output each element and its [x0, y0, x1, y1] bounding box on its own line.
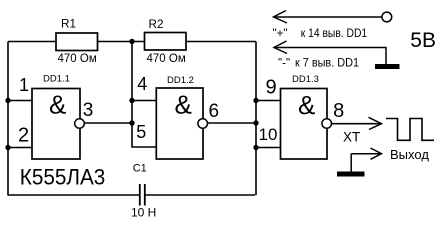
wire left vertical node A — [7, 42, 9, 196]
ground bar (power minus) — [375, 64, 400, 69]
terminal circle +5V — [382, 12, 392, 22]
svg-text:DD1.2: DD1.2 — [167, 75, 194, 86]
inverter bubble DD1.2 output — [198, 119, 208, 129]
wire Выход arrow — [351, 153, 381, 155]
wire DD1.3 output to XT arrow — [332, 123, 382, 125]
svg-text:R2: R2 — [149, 18, 164, 31]
svg-text:К555ЛА3: К555ЛА3 — [20, 164, 106, 189]
junction node C pin9 — [253, 98, 258, 103]
junction node B top — [129, 39, 134, 44]
svg-text:R1: R1 — [61, 18, 76, 31]
capacitor C1 — [140, 184, 145, 206]
wire -5V feed line — [274, 48, 386, 65]
pin 9 wire — [256, 100, 281, 102]
svg-text:к 14 выв. DD1: к 14 выв. DD1 — [301, 27, 367, 40]
arrowhead XT output — [369, 117, 382, 129]
svg-text:9: 9 — [265, 77, 276, 99]
svg-text:10 Н: 10 Н — [131, 206, 156, 220]
svg-text:2: 2 — [18, 125, 29, 147]
pin 10 wire — [256, 147, 281, 149]
op-amp U1: NAND gate DD1.1 box — [32, 89, 80, 160]
svg-text:&: & — [49, 89, 66, 119]
svg-text:1: 1 — [19, 75, 29, 95]
junction node C output — [253, 120, 258, 125]
arrowhead Выход (right) — [371, 148, 382, 159]
wire C1 to node C bottom — [146, 194, 256, 196]
inverter bubble DD1.3 output — [322, 119, 332, 129]
junction node A pin1 — [5, 98, 10, 103]
resistor R2 — [145, 33, 187, 51]
junction node B output — [129, 120, 134, 125]
op-amp U2: NAND gate DD1.2 box — [156, 88, 203, 159]
junction node C pin10 — [253, 145, 258, 150]
svg-text:DD1.1: DD1.1 — [43, 74, 70, 85]
wire ground drop (output) — [350, 154, 352, 172]
pin 2 wire — [8, 147, 32, 149]
svg-text:XT: XT — [343, 130, 360, 145]
svg-text:к 7 выв. DD1: к 7 выв. DD1 — [295, 56, 359, 69]
wire bottom from node A to C1 — [8, 194, 139, 196]
wire R2 to node C vertical — [186, 41, 256, 43]
node C vertical wire — [255, 42, 257, 196]
svg-text:470 Ом: 470 Ом — [147, 53, 186, 65]
svg-text:10: 10 — [259, 125, 278, 144]
op-amp U3: NAND gate DD1.3 box — [281, 89, 328, 160]
wire DD1.1 output to node B — [84, 122, 132, 124]
junction node A pin2 — [5, 145, 10, 150]
arrowhead +5V (left) — [274, 11, 288, 24]
wire R1 to R2 (node B top) — [98, 41, 145, 43]
svg-text:"-": "-" — [278, 56, 290, 69]
svg-text:5В: 5В — [410, 29, 436, 52]
svg-text:6: 6 — [209, 101, 220, 122]
ground bar (output) — [337, 172, 365, 177]
wire top-left from node A down-left corner to R1 — [8, 41, 56, 43]
svg-text:8: 8 — [333, 100, 344, 122]
svg-text:&: & — [175, 89, 192, 119]
svg-text:4: 4 — [137, 74, 147, 94]
svg-text:C1: C1 — [133, 162, 147, 174]
junction node B pin4 — [129, 98, 134, 103]
inverter bubble DD1.1 output — [75, 119, 85, 129]
wire +5V feed line — [274, 16, 382, 18]
svg-text:&: & — [298, 90, 315, 120]
svg-text:470 Ом: 470 Ом — [58, 53, 97, 65]
svg-text:DD1.3: DD1.3 — [292, 74, 319, 85]
wire DD1.2 output to node C — [208, 122, 257, 124]
arrowhead -5V (left) — [274, 41, 287, 54]
square wave output waveform — [386, 119, 434, 141]
pin 4 wire — [132, 100, 156, 102]
svg-text:Выход: Выход — [390, 147, 429, 162]
pin 1 wire — [8, 100, 32, 102]
svg-text:3: 3 — [83, 100, 94, 121]
node B vertical wire — [132, 42, 156, 148]
svg-text:"+": "+" — [273, 27, 288, 40]
svg-text:5: 5 — [136, 122, 146, 142]
resistor R1 — [56, 33, 98, 51]
